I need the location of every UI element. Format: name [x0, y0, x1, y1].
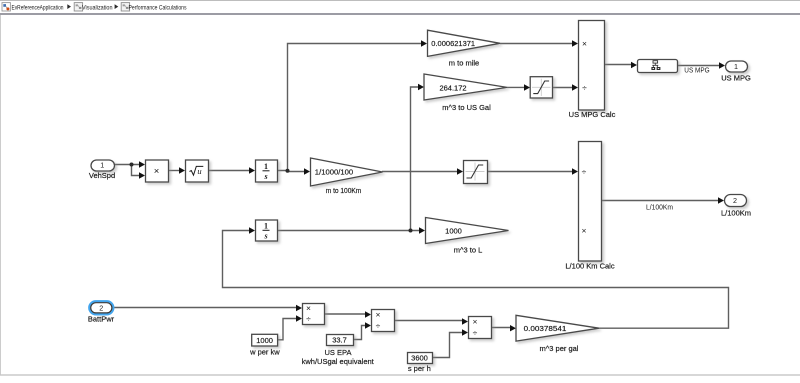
svg-text:×: × — [376, 309, 381, 319]
svg-text:m to 100Km: m to 100Km — [326, 186, 362, 195]
svg-text:×: × — [582, 38, 587, 48]
svg-text:US MPG Calc: US MPG Calc — [569, 110, 616, 119]
svg-text:÷: ÷ — [376, 320, 381, 330]
svg-text:0.000621371: 0.000621371 — [431, 39, 475, 48]
svg-text:m^3 per gal: m^3 per gal — [540, 344, 579, 353]
svg-text:×: × — [306, 303, 311, 313]
svg-text:÷: ÷ — [582, 82, 587, 92]
svg-text:u: u — [197, 166, 201, 176]
svg-text:÷: ÷ — [582, 166, 587, 176]
svg-text:1000: 1000 — [445, 227, 462, 236]
svg-text:kwh/USgal equivalent: kwh/USgal equivalent — [302, 357, 375, 366]
svg-text:0.00378541: 0.00378541 — [524, 324, 567, 333]
svg-text:s: s — [263, 172, 267, 181]
svg-text:VehSpd: VehSpd — [89, 171, 115, 180]
svg-text:264.172: 264.172 — [439, 83, 466, 92]
svg-text:US MPG: US MPG — [684, 65, 710, 74]
svg-text:1000: 1000 — [256, 336, 273, 345]
svg-text:2: 2 — [99, 304, 103, 313]
svg-text:1: 1 — [264, 162, 268, 171]
svg-text:÷: ÷ — [473, 327, 478, 337]
svg-text:EvReferenceApplication: EvReferenceApplication — [12, 4, 64, 11]
svg-text:m^3 to L: m^3 to L — [454, 246, 483, 255]
svg-text:Performance Calculations: Performance Calculations — [129, 4, 187, 11]
svg-text:s: s — [263, 232, 267, 241]
svg-text:2: 2 — [733, 196, 737, 205]
svg-text:1: 1 — [100, 161, 104, 170]
svg-text:33.7: 33.7 — [332, 335, 347, 344]
svg-text:3600: 3600 — [411, 353, 428, 362]
svg-text:×: × — [154, 166, 160, 177]
svg-text:US EPA: US EPA — [325, 348, 352, 357]
svg-text:1: 1 — [734, 62, 738, 71]
svg-text:s per h: s per h — [408, 364, 431, 373]
svg-text:m to mile: m to mile — [449, 59, 479, 68]
svg-text:L/100Km: L/100Km — [646, 203, 673, 212]
svg-text:BattPwr: BattPwr — [88, 315, 115, 324]
svg-text:L/100 Km Calc: L/100 Km Calc — [565, 262, 614, 271]
svg-text:×: × — [473, 316, 478, 326]
svg-text:L/100Km: L/100Km — [721, 209, 751, 218]
svg-text:×: × — [582, 225, 587, 235]
svg-text:Visualization: Visualization — [82, 4, 113, 11]
svg-text:w per kw: w per kw — [249, 347, 280, 356]
svg-text:1: 1 — [264, 221, 268, 230]
svg-text:1/1000/100: 1/1000/100 — [315, 167, 353, 176]
svg-text:m^3 to US Gal: m^3 to US Gal — [442, 103, 491, 112]
svg-text:÷: ÷ — [306, 314, 311, 324]
svg-text:US MPG: US MPG — [721, 74, 751, 83]
